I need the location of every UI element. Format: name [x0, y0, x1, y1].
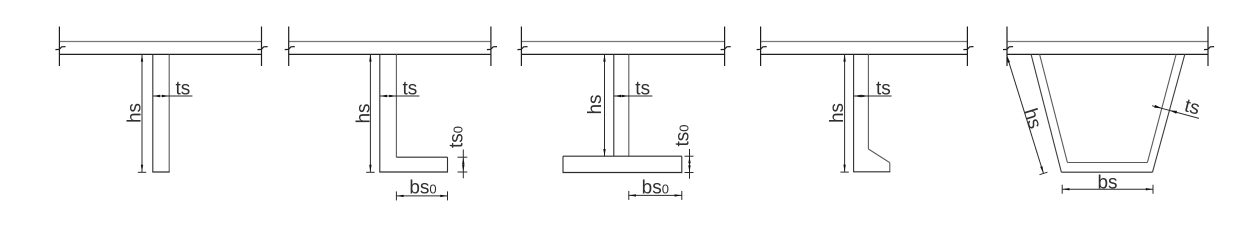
flange F3 bottom line: [563, 172, 683, 174]
dimension hs5 top arrow: [1007, 56, 1010, 63]
flange F3 left edge: [562, 156, 564, 172]
dimension ts5 left arrow: [1154, 105, 1162, 108]
web W1 left line: [152, 54, 154, 172]
deck slab S3 left break tick: [517, 47, 527, 50]
dimension ts0-2 line: [462, 150, 464, 179]
dimension ts2 right arrow: [389, 95, 396, 97]
deck slab S4 top line: [761, 41, 968, 43]
deck slab S3 left cut line: [520, 27, 522, 67]
web W3 right line: [628, 54, 630, 156]
box outer left wall: [1031, 54, 1061, 172]
box inner bottom line: [1067, 162, 1147, 164]
dimension ts3 right arrow: [622, 95, 629, 97]
svg-text:hs: hs: [585, 94, 606, 114]
svg-text:bs0: bs0: [642, 177, 669, 198]
svg-text:ts: ts: [176, 79, 191, 100]
deck slab S4 left break tick: [757, 47, 767, 50]
dimension hs1 top arrow: [141, 54, 143, 61]
dimension ts0-2 bottom arrow: [462, 165, 464, 172]
dimension ts3 line: [614, 95, 653, 97]
dimension ts0-3 top extension tick: [685, 155, 694, 157]
box outer bottom line: [1061, 171, 1152, 173]
flange F2 top line: [396, 156, 447, 158]
deck slab S3 bottom line: [521, 53, 724, 55]
deck slab S1 left cut line: [58, 27, 60, 67]
dimension ts3 left arrow: [614, 95, 621, 97]
svg-text:hs: hs: [353, 103, 374, 123]
dimension bs5 line: [1062, 188, 1153, 190]
dimension bs0-2 left arrow: [396, 195, 403, 197]
deck slab S4 bottom line: [761, 53, 968, 55]
web W1 right line: [168, 54, 170, 172]
deck slab S5 bottom line: [1007, 53, 1208, 55]
svg-text:bs: bs: [1097, 173, 1117, 194]
deck slab S5 left break tick: [1003, 47, 1013, 50]
deck slab S1 left break tick: [55, 47, 65, 50]
svg-text:hs: hs: [125, 103, 146, 123]
deck slab S1 bottom line: [59, 53, 261, 55]
deck slab S2 right cut line: [490, 27, 492, 67]
dimension hs3 bottom arrow: [603, 149, 605, 156]
dimension hs1 bottom arrow: [141, 165, 143, 172]
dimension hs4 bottom extension tick: [840, 171, 848, 173]
svg-text:hs: hs: [827, 103, 848, 123]
deck slab S3 right cut line: [724, 27, 726, 67]
box inner right wall: [1147, 54, 1176, 162]
dimension ts0-2 bottom extension tick: [458, 171, 468, 173]
dimension bs0-3 left extension tick: [628, 191, 630, 200]
dimension hs1 bottom extension tick: [138, 171, 146, 173]
dimension hs2 bottom arrow: [369, 165, 371, 172]
deck slab S2 right break tick: [487, 47, 497, 50]
flange F3 right edge: [681, 156, 683, 172]
deck slab S2 left break tick: [285, 47, 295, 50]
box outer right wall: [1153, 54, 1185, 172]
web W3 left line: [613, 54, 615, 156]
deck slab S5 top line: [1007, 41, 1208, 43]
svg-text:ts0: ts0: [673, 124, 694, 146]
dimension bs0-3 left arrow: [629, 194, 636, 196]
web W4 haunch right edge: [889, 163, 891, 172]
dimension ts5 right arrow: [1170, 110, 1178, 113]
dimension ts0-3 top arrow: [688, 156, 690, 163]
dimension ts0-3 bottom arrow: [688, 165, 690, 172]
dimension hs2 top arrow: [369, 54, 371, 61]
dimension hs3 top arrow: [603, 54, 605, 61]
box inner left wall: [1040, 54, 1068, 162]
dimension hs2 bottom extension tick: [366, 171, 374, 173]
dimension hs2 line: [369, 54, 371, 172]
svg-text:bs0: bs0: [409, 177, 436, 198]
dimension ts0-2 top arrow: [462, 157, 464, 164]
deck slab S5 right break tick: [1204, 47, 1214, 50]
flange F2 bottom line: [379, 171, 448, 173]
dimension bs0-2 right arrow: [440, 195, 447, 197]
deck slab S5 right cut line: [1207, 27, 1209, 67]
web W4 bottom line: [853, 171, 890, 173]
dimension hs1 line: [141, 54, 143, 172]
dimension bs0-2 line: [396, 195, 447, 197]
web W4 left line: [853, 54, 855, 171]
dimension ts0-2 top extension tick: [458, 156, 468, 158]
dimension ts0-3 line: [689, 149, 691, 179]
dimension hs5 bottom arrow: [1040, 166, 1043, 173]
web W4 right line: [867, 54, 869, 149]
dimension bs5 left arrow: [1062, 188, 1069, 190]
dimension ts5 line: [1152, 106, 1199, 119]
deck slab S3 top line: [521, 41, 724, 43]
deck slab S4 left cut line: [760, 27, 762, 67]
flange F2 right edge: [447, 157, 449, 172]
dimension bs0-2 left extension tick: [395, 191, 397, 200]
dimension hs3 line: [604, 54, 606, 156]
svg-text:ts0: ts0: [446, 126, 467, 148]
dimension ts0-3 bottom extension tick: [685, 172, 694, 174]
dimension hs5 bottom extension tick: [1040, 172, 1048, 175]
dimension ts1 line: [153, 95, 193, 97]
deck slab S5 left cut line: [1006, 27, 1008, 67]
web W1 bottom line: [152, 171, 169, 173]
dimension ts4 right arrow: [861, 95, 868, 97]
dimension bs5 left extension tick: [1061, 185, 1063, 194]
dimension hs4 top arrow: [843, 54, 845, 61]
deck slab S4 right cut line: [966, 27, 968, 67]
deck slab S4 right break tick: [963, 47, 973, 50]
dimension ts4 left arrow: [854, 95, 861, 97]
dimension ts2 left arrow: [380, 95, 387, 97]
dimension ts2 line: [380, 95, 420, 97]
web W4 haunch diagonal: [868, 149, 889, 163]
dimension hs4 bottom arrow: [843, 165, 845, 172]
dimension ts1 right arrow: [162, 95, 169, 97]
deck slab S1 right cut line: [261, 27, 263, 67]
dimension hs5 line: [1007, 56, 1044, 174]
deck slab S3 right break tick: [721, 47, 731, 50]
dimension bs5 right arrow: [1146, 188, 1153, 190]
web W2 right line: [395, 54, 397, 157]
dimension bs5 right extension tick: [1152, 185, 1154, 194]
web W2 left line: [379, 54, 381, 172]
svg-text:ts: ts: [635, 79, 650, 100]
dimension bs0-3 right arrow: [675, 194, 682, 196]
deck slab S1 top line: [59, 41, 261, 43]
deck slab S2 bottom line: [289, 53, 491, 55]
deck slab S2 left cut line: [288, 27, 290, 67]
flange F3 top line: [563, 155, 682, 157]
dimension hs4 line: [844, 54, 846, 171]
deck slab S1 right break tick: [258, 47, 268, 50]
svg-text:ts: ts: [876, 79, 891, 100]
dimension ts1 left arrow: [153, 95, 160, 97]
dimension bs0-3 line: [629, 194, 682, 196]
dimension ts4 line: [854, 95, 892, 97]
dimension bs0-3 right extension tick: [681, 191, 683, 200]
dimension bs0-2 right extension tick: [447, 191, 449, 200]
svg-text:ts: ts: [403, 79, 418, 100]
deck slab S2 top line: [289, 41, 491, 43]
